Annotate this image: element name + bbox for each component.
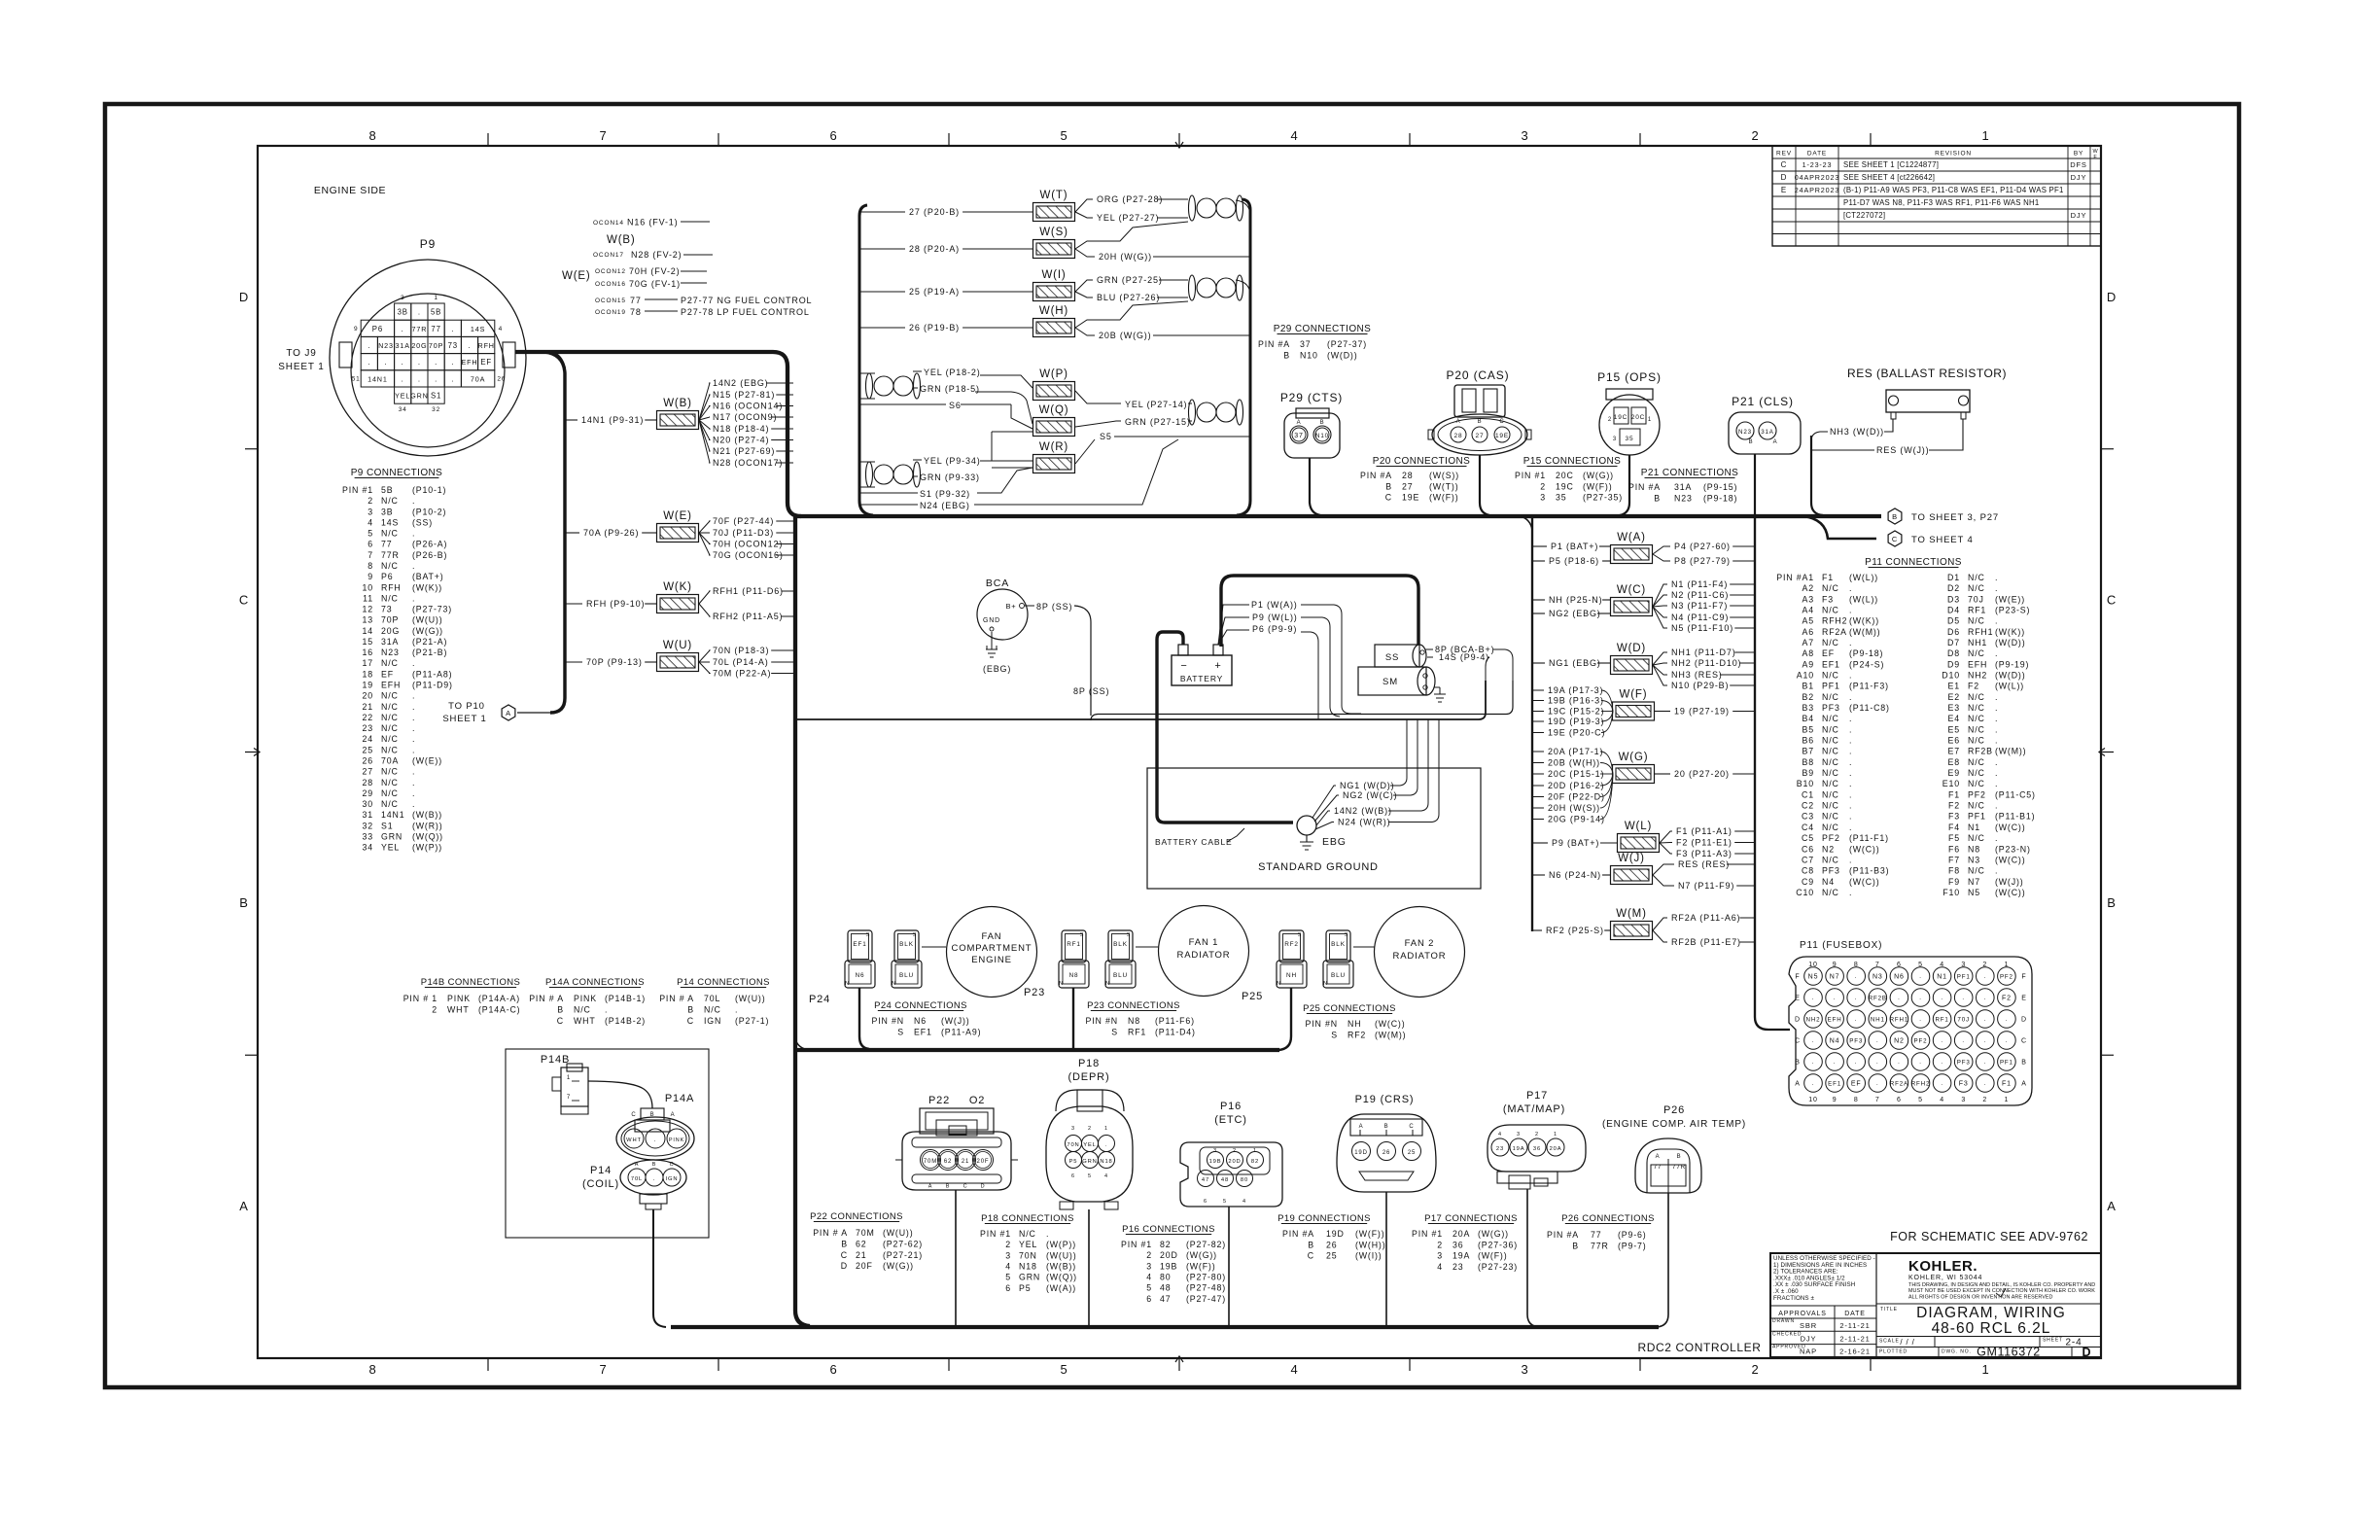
svg-text:IGN: IGN xyxy=(666,1176,679,1182)
svg-text:2: 2 xyxy=(1146,1250,1152,1260)
svg-text:(W(H)): (W(H)) xyxy=(1355,1240,1385,1249)
svg-text:N7: N7 xyxy=(1830,974,1840,981)
svg-text:P17: P17 xyxy=(1526,1090,1548,1102)
svg-text:A5: A5 xyxy=(1802,616,1814,626)
table P23 CONNECTIONS xyxy=(1086,1000,1196,1036)
resistor RES (BALLAST RESISTOR) xyxy=(1847,367,2007,419)
svg-text:TO SHEET 4: TO SHEET 4 xyxy=(1911,535,1974,545)
svg-text:PIN #1: PIN #1 xyxy=(1412,1229,1443,1239)
svg-text:SHEET 1: SHEET 1 xyxy=(442,714,486,724)
svg-text:20D (P16-2): 20D (P16-2) xyxy=(1548,781,1604,790)
svg-text:(MAT/MAP): (MAT/MAP) xyxy=(1503,1103,1565,1115)
svg-text:P18: P18 xyxy=(1078,1058,1100,1069)
splice W(G) xyxy=(1613,752,1655,784)
svg-text:.: . xyxy=(1849,768,1852,778)
svg-text:2-16-21: 2-16-21 xyxy=(1839,1347,1871,1356)
svg-text:8: 8 xyxy=(367,561,373,571)
svg-text:3: 3 xyxy=(401,295,404,301)
svg-text:15: 15 xyxy=(363,637,374,647)
svg-text:DJY: DJY xyxy=(2071,173,2087,182)
wire RES (W(J)) to resistor xyxy=(1812,419,1963,455)
svg-text:F3: F3 xyxy=(1948,812,1960,822)
svg-text:E1: E1 xyxy=(1948,682,1960,691)
svg-text:N6 (P24-N): N6 (P24-N) xyxy=(1549,870,1601,880)
svg-text:7: 7 xyxy=(1875,962,1880,968)
svg-text:D: D xyxy=(2107,290,2117,304)
table P17 CONNECTIONS xyxy=(1412,1213,1518,1272)
svg-text:P23: P23 xyxy=(1024,987,1045,998)
svg-text:4: 4 xyxy=(1437,1262,1443,1272)
wire P26 stem xyxy=(1657,1193,1668,1327)
svg-text:24: 24 xyxy=(363,734,374,744)
svg-text:3: 3 xyxy=(1613,437,1617,442)
connector P24 fan modules BLK/BLU xyxy=(892,930,922,988)
svg-text:E: E xyxy=(2021,996,2027,1002)
svg-text:OCON15: OCON15 xyxy=(595,297,626,304)
svg-text:F3: F3 xyxy=(1959,1081,1969,1088)
svg-text:SEE SHEET 4 [ct226642]: SEE SHEET 4 [ct226642] xyxy=(1843,173,1935,182)
wire branch long horizontal mid line xyxy=(795,681,1486,719)
svg-text:F1 (P11-A1): F1 (P11-A1) xyxy=(1676,826,1732,836)
svg-text:2-4: 2-4 xyxy=(2065,1338,2082,1348)
svg-text:P14A CONNECTIONS: P14A CONNECTIONS xyxy=(545,977,645,988)
border frame inner drawing area xyxy=(258,146,2101,1358)
svg-text:A6: A6 xyxy=(1802,627,1814,637)
svg-text:N5 (P11-F10): N5 (P11-F10) xyxy=(1671,623,1733,633)
wire P17 stem xyxy=(1527,1189,1539,1327)
svg-text:C1: C1 xyxy=(1802,789,1814,799)
svg-text:BLU: BLU xyxy=(899,972,914,979)
svg-text:35: 35 xyxy=(1626,436,1634,442)
svg-text:YEL: YEL xyxy=(1019,1240,1037,1249)
svg-text:77R: 77R xyxy=(1591,1242,1609,1251)
component BCA battery charging alternator xyxy=(977,577,1072,640)
svg-text:.: . xyxy=(384,358,387,367)
svg-text:.: . xyxy=(1984,1017,1987,1023)
svg-text:.: . xyxy=(435,358,437,367)
splice W(M) xyxy=(1611,908,1653,940)
table P15 CONNECTIONS xyxy=(1515,456,1623,503)
svg-text:6: 6 xyxy=(1897,1097,1902,1103)
table P19 CONNECTIONS xyxy=(1277,1213,1385,1261)
table P20 CONNECTIONS xyxy=(1360,456,1470,503)
svg-text:C: C xyxy=(670,1162,675,1168)
svg-text:N17 (OCON9): N17 (OCON9) xyxy=(713,412,777,422)
svg-text:.: . xyxy=(605,1005,608,1015)
svg-text:(W(G)): (W(G)) xyxy=(1583,471,1614,480)
svg-text:37: 37 xyxy=(1294,433,1304,439)
svg-text:PF2: PF2 xyxy=(2000,974,2013,981)
svg-text:NG2 (EBG): NG2 (EBG) xyxy=(1549,609,1601,618)
svg-text:(P24-S): (P24-S) xyxy=(1849,659,1884,669)
svg-text:B: B xyxy=(1308,1240,1314,1249)
svg-text:A: A xyxy=(1456,419,1461,425)
svg-text:6: 6 xyxy=(367,540,373,549)
svg-text:RDC2 CONTROLLER: RDC2 CONTROLLER xyxy=(1637,1341,1761,1354)
splice W(S) xyxy=(1033,227,1075,259)
svg-text:5: 5 xyxy=(1146,1283,1152,1293)
svg-text:.: . xyxy=(1995,801,1998,811)
svg-text:17: 17 xyxy=(363,658,374,668)
node B TO SHEET 3, P27 xyxy=(1888,508,1999,524)
wire 25 (P19-A) xyxy=(859,287,1032,297)
svg-text:PIN #1: PIN #1 xyxy=(980,1229,1011,1239)
svg-text:PF1: PF1 xyxy=(1957,974,1971,981)
svg-text:E: E xyxy=(1781,186,1787,194)
svg-text:W(E): W(E) xyxy=(562,270,591,282)
svg-text:3: 3 xyxy=(367,507,373,516)
svg-text:.: . xyxy=(1995,714,1998,723)
svg-text:70G (FV-1): 70G (FV-1) xyxy=(629,279,681,289)
svg-text:S5: S5 xyxy=(1100,432,1112,441)
svg-text:B1: B1 xyxy=(1802,682,1814,691)
svg-text:P1 (W(A)): P1 (W(A)) xyxy=(1251,600,1298,610)
W(B) fanout wires xyxy=(699,378,793,468)
svg-text:N/C: N/C xyxy=(1822,801,1839,811)
svg-text:.: . xyxy=(1995,779,1998,788)
svg-text:YEL (P27-14): YEL (P27-14) xyxy=(1125,400,1187,409)
svg-text:70J (P11-D3): 70J (P11-D3) xyxy=(713,528,774,538)
svg-text:20F: 20F xyxy=(856,1261,873,1271)
svg-text:3: 3 xyxy=(1521,128,1528,143)
svg-text:(W(U)): (W(U)) xyxy=(412,615,442,625)
svg-text:31A: 31A xyxy=(396,341,410,350)
svg-text:RF2B (P11-E7): RF2B (P11-E7) xyxy=(1671,937,1741,947)
svg-text:20B (W(H)): 20B (W(H)) xyxy=(1548,758,1600,768)
svg-text:P18 CONNECTIONS: P18 CONNECTIONS xyxy=(981,1213,1074,1224)
svg-text:1: 1 xyxy=(434,295,437,301)
svg-text:.: . xyxy=(1995,736,1998,746)
svg-text:S: S xyxy=(866,932,871,938)
connector P29 (CTS) xyxy=(1280,391,1343,458)
W(J) fanout wires xyxy=(1653,859,1755,891)
svg-text:70J: 70J xyxy=(1968,594,1984,604)
wire harness W-group left bus xyxy=(859,205,873,515)
wire P14 stem to trunk xyxy=(653,1209,666,1327)
svg-text:RF1: RF1 xyxy=(1968,606,1986,615)
svg-text:(P11-C5): (P11-C5) xyxy=(1995,789,2036,799)
svg-text:70F (P27-44): 70F (P27-44) xyxy=(713,516,774,526)
svg-text:(P11-A8): (P11-A8) xyxy=(412,669,452,679)
wire S5 xyxy=(1075,432,1250,464)
svg-text:OCON19: OCON19 xyxy=(595,309,626,316)
svg-text:P6: P6 xyxy=(372,325,383,333)
svg-text:BATTERY: BATTERY xyxy=(1180,674,1223,683)
revision table xyxy=(1772,146,2101,246)
svg-text:PIN #A: PIN #A xyxy=(1258,339,1290,349)
wire thick loop over battery to starter xyxy=(1221,576,1418,647)
svg-text:DJY: DJY xyxy=(2071,211,2087,220)
svg-text:N/C: N/C xyxy=(1822,855,1839,864)
svg-text:.: . xyxy=(412,713,415,722)
svg-text:N: N xyxy=(845,981,850,987)
svg-text:N/C: N/C xyxy=(381,691,399,701)
svg-text:(P11-B1): (P11-B1) xyxy=(1995,812,2035,822)
svg-text:.: . xyxy=(735,1005,738,1015)
svg-text:/ / /: / / / xyxy=(1900,1338,1914,1347)
svg-text:30: 30 xyxy=(363,799,374,809)
svg-text:.: . xyxy=(412,799,415,809)
node A TO P10 SHEET 1 xyxy=(442,701,550,724)
wires 19A-19E to W(F) xyxy=(1532,685,1613,738)
svg-text:F1: F1 xyxy=(1822,573,1834,582)
svg-text:EF: EF xyxy=(1851,1081,1862,1088)
svg-text:DIAGRAM, WIRING: DIAGRAM, WIRING xyxy=(1916,1305,2066,1321)
svg-text:THIS DRAWING, IN DESIGN AND DE: THIS DRAWING, IN DESIGN AND DETAIL, IS K… xyxy=(1908,1282,2095,1288)
splice W(Q) xyxy=(1033,404,1075,437)
svg-text:(P11-D9): (P11-D9) xyxy=(412,681,453,690)
svg-text:20D: 20D xyxy=(1160,1250,1178,1260)
svg-text:1: 1 xyxy=(1981,128,1989,143)
svg-text:RES (W(J)): RES (W(J)) xyxy=(1876,445,1930,455)
svg-text:N4 (P11-C9): N4 (P11-C9) xyxy=(1671,612,1729,622)
svg-text:PF1: PF1 xyxy=(1822,682,1840,691)
svg-text:N/C: N/C xyxy=(1968,692,1985,702)
svg-text:9: 9 xyxy=(1833,962,1837,968)
svg-text:BLU: BLU xyxy=(1331,972,1346,979)
connector P17 (MAT/MAP) xyxy=(1487,1090,1586,1189)
svg-text:B10: B10 xyxy=(1797,779,1814,788)
table P26 CONNECTIONS xyxy=(1547,1213,1655,1251)
svg-text:(DEPR): (DEPR) xyxy=(1068,1071,1110,1083)
svg-text:F3 (P11-A3): F3 (P11-A3) xyxy=(1676,849,1732,858)
svg-text:ALL RIGHTS OF DESIGN OR INVENT: ALL RIGHTS OF DESIGN OR INVENTION ARE RE… xyxy=(1908,1294,2053,1300)
svg-text:N10: N10 xyxy=(1315,433,1329,439)
svg-text:28: 28 xyxy=(1454,433,1463,439)
svg-text:PF3: PF3 xyxy=(1957,1060,1971,1067)
svg-text:PINK: PINK xyxy=(574,994,597,1003)
svg-text:2: 2 xyxy=(1535,1132,1539,1137)
connector P14B xyxy=(541,1054,588,1114)
component SM starter motor xyxy=(1358,667,1435,695)
wire harness W-group right bus xyxy=(1237,199,1250,515)
svg-text:.: . xyxy=(1919,974,1922,980)
svg-text:EBG: EBG xyxy=(1322,836,1347,848)
label BATTERY CABLE xyxy=(1155,828,1244,847)
svg-text:34: 34 xyxy=(399,406,407,413)
twisted pair YEL/GRN P9 xyxy=(859,432,1032,487)
svg-text:(W(F)): (W(F)) xyxy=(1355,1229,1385,1239)
wire S6 xyxy=(859,401,1011,410)
svg-text:PIN #N: PIN #N xyxy=(1086,1016,1118,1026)
svg-text:7: 7 xyxy=(567,1095,571,1101)
svg-text:P16: P16 xyxy=(1220,1101,1242,1112)
svg-text:31A: 31A xyxy=(1674,482,1692,492)
svg-text:N8: N8 xyxy=(1069,972,1079,979)
wire harness left bus from P9 split xyxy=(544,352,565,713)
svg-text:.: . xyxy=(1962,1038,1965,1044)
svg-text:(P27-82): (P27-82) xyxy=(1186,1240,1226,1249)
svg-text:2: 2 xyxy=(1751,1362,1759,1377)
connector P14A xyxy=(616,1093,694,1160)
svg-text:10: 10 xyxy=(1808,962,1818,968)
svg-text:.: . xyxy=(1849,747,1852,756)
svg-text:2-11-21: 2-11-21 xyxy=(1839,1334,1870,1343)
svg-text:70L (P14-A): 70L (P14-A) xyxy=(713,657,769,667)
svg-text:OCON16: OCON16 xyxy=(595,281,626,288)
connector P11 (FUSEBOX) xyxy=(1789,940,2032,1105)
splice W(D) xyxy=(1611,643,1653,675)
svg-text:20C: 20C xyxy=(1556,471,1574,480)
svg-text:.: . xyxy=(418,308,421,317)
svg-text:1: 1 xyxy=(2005,962,2010,968)
splice W(U) xyxy=(657,640,699,672)
svg-text:19C (P15-2): 19C (P15-2) xyxy=(1548,707,1604,717)
svg-text:(W(C)): (W(C)) xyxy=(1995,855,2025,864)
svg-text:.: . xyxy=(412,723,415,733)
wire harness trunk from P9 xyxy=(515,352,801,516)
svg-text:B: B xyxy=(1384,1124,1389,1130)
svg-text:N6: N6 xyxy=(1894,974,1905,981)
svg-text:20A: 20A xyxy=(1550,1146,1562,1152)
table P11 CONNECTIONS xyxy=(1776,557,2036,897)
svg-text:D5: D5 xyxy=(1947,616,1960,626)
svg-text:14N2 (EBG): 14N2 (EBG) xyxy=(713,378,769,388)
svg-text:31A: 31A xyxy=(1761,429,1774,436)
svg-text:B3: B3 xyxy=(1802,703,1814,713)
svg-text:REV: REV xyxy=(1776,151,1792,157)
svg-text:5: 5 xyxy=(1060,128,1067,143)
svg-text:.: . xyxy=(654,1137,657,1143)
wire 27 (P20-B) xyxy=(859,207,1032,217)
svg-text:B9: B9 xyxy=(1802,768,1814,778)
svg-text:28: 28 xyxy=(1402,471,1414,480)
svg-text:.: . xyxy=(1995,648,1998,658)
svg-text:.: . xyxy=(412,734,415,744)
svg-text:B: B xyxy=(1478,419,1483,425)
svg-text:C: C xyxy=(1781,160,1788,169)
svg-text:P21 (CLS): P21 (CLS) xyxy=(1732,395,1794,408)
svg-text:20A: 20A xyxy=(1452,1229,1470,1239)
svg-text:(ETC): (ETC) xyxy=(1214,1114,1247,1126)
svg-text:.: . xyxy=(1812,1081,1815,1087)
svg-text:20F: 20F xyxy=(977,1159,990,1165)
svg-text:C6: C6 xyxy=(1802,844,1814,854)
svg-text:.: . xyxy=(412,778,415,787)
wire harness W-column left bus xyxy=(1531,516,1533,931)
svg-text:20G: 20G xyxy=(381,626,400,636)
svg-text:W(M): W(M) xyxy=(1616,908,1647,920)
svg-text:.: . xyxy=(1046,1229,1049,1239)
splice W(B) xyxy=(657,398,699,430)
svg-text:(W(L)): (W(L)) xyxy=(1849,594,1878,604)
svg-text:SHEET 1: SHEET 1 xyxy=(278,362,324,372)
svg-text:COMPARTMENT: COMPARTMENT xyxy=(952,943,1032,954)
svg-text:N/C: N/C xyxy=(1822,692,1839,702)
svg-text:BCA: BCA xyxy=(986,577,1009,589)
svg-text:(P27-36): (P27-36) xyxy=(1478,1240,1518,1249)
svg-text:(W(B)): (W(B)) xyxy=(412,810,442,820)
svg-text:D1: D1 xyxy=(1947,573,1960,582)
svg-text:(P9-18): (P9-18) xyxy=(1849,648,1883,658)
svg-text:1: 1 xyxy=(2005,1097,2010,1103)
svg-text:C: C xyxy=(687,1016,694,1026)
svg-text:3: 3 xyxy=(1213,1148,1217,1154)
svg-text:P27-78 LP FUEL CONTROL: P27-78 LP FUEL CONTROL xyxy=(681,307,810,317)
svg-text:16: 16 xyxy=(363,647,374,657)
svg-text:MUST NOT BE USED EXCEPT IN CON: MUST NOT BE USED EXCEPT IN CONNECTION WI… xyxy=(1908,1288,2095,1294)
svg-text:NH (P25-N): NH (P25-N) xyxy=(1549,595,1603,605)
svg-text:N/C: N/C xyxy=(1019,1229,1036,1239)
svg-text:N18 (P18-4): N18 (P18-4) xyxy=(713,424,769,434)
svg-text:PINK: PINK xyxy=(447,994,471,1003)
svg-text:2: 2 xyxy=(432,1005,437,1015)
svg-text:N: N xyxy=(1323,981,1328,987)
svg-text:PINK: PINK xyxy=(669,1137,684,1143)
svg-text:(W(C)): (W(C)) xyxy=(1849,844,1879,854)
svg-text:.: . xyxy=(412,658,415,668)
svg-text:P29 CONNECTIONS: P29 CONNECTIONS xyxy=(1274,324,1371,334)
svg-text:BLU: BLU xyxy=(1113,972,1128,979)
svg-text:2: 2 xyxy=(1437,1240,1443,1249)
svg-text:STANDARD GROUND: STANDARD GROUND xyxy=(1258,861,1379,873)
svg-text:(W(D)): (W(D)) xyxy=(1995,671,2025,681)
svg-text:(B-1) P11-A9 WAS PF3, P11-C8 W: (B-1) P11-A9 WAS PF3, P11-C8 WAS EF1, P1… xyxy=(1843,186,2064,194)
svg-text:F2: F2 xyxy=(1948,801,1960,811)
wire harness bottom trunk xyxy=(671,1325,1659,1329)
svg-text:N2: N2 xyxy=(1894,1038,1905,1045)
svg-text:70N: 70N xyxy=(1019,1250,1037,1260)
svg-text:34: 34 xyxy=(363,843,374,853)
wire GRN (P27-25) twisted pair xyxy=(1075,275,1188,302)
svg-text:.: . xyxy=(1876,1060,1879,1066)
svg-text:C: C xyxy=(631,1112,636,1118)
svg-text:(P27-21): (P27-21) xyxy=(883,1250,923,1260)
svg-text:F5: F5 xyxy=(1948,833,1960,843)
svg-text:.: . xyxy=(1984,1081,1987,1087)
svg-text:N1: N1 xyxy=(1968,822,1980,832)
svg-text:.: . xyxy=(412,529,415,539)
svg-text:EF: EF xyxy=(381,669,394,679)
svg-text:DRAWN: DRAWN xyxy=(1772,1318,1795,1324)
svg-text:.: . xyxy=(1849,812,1852,822)
svg-text:SM: SM xyxy=(1382,677,1398,687)
svg-text:N2: N2 xyxy=(1822,844,1835,854)
svg-text:.: . xyxy=(1812,1038,1815,1044)
svg-text:N15 (P27-81): N15 (P27-81) xyxy=(713,390,775,400)
svg-text:F10: F10 xyxy=(1942,888,1960,897)
svg-text:N3 (P11-F7): N3 (P11-F7) xyxy=(1671,601,1728,611)
svg-text:C9: C9 xyxy=(1802,877,1814,887)
svg-text:.: . xyxy=(1984,1038,1987,1044)
svg-text:.: . xyxy=(1941,996,1943,1001)
svg-text:77R: 77R xyxy=(412,325,428,333)
svg-text:(W(C)): (W(C)) xyxy=(1849,877,1879,887)
svg-text:.: . xyxy=(1834,996,1837,1001)
svg-text:NH3 (W(D)): NH3 (W(D)) xyxy=(1830,427,1884,437)
svg-text:B: B xyxy=(1749,439,1754,445)
svg-text:EFH: EFH xyxy=(381,681,401,690)
svg-text:8P (SS): 8P (SS) xyxy=(1073,686,1109,696)
svg-text:.: . xyxy=(1995,703,1998,713)
svg-text:.: . xyxy=(1855,1017,1858,1023)
svg-text:14N2 (W(B)): 14N2 (W(B)) xyxy=(1334,806,1392,816)
svg-text:APPROVALS: APPROVALS xyxy=(1778,1311,1827,1317)
svg-text:48: 48 xyxy=(1221,1177,1229,1183)
svg-text:C: C xyxy=(2021,1038,2027,1045)
svg-text:D: D xyxy=(841,1261,848,1271)
svg-text:C: C xyxy=(1409,1124,1414,1130)
svg-text:.: . xyxy=(1995,768,1998,778)
svg-text:N/C: N/C xyxy=(381,713,399,722)
svg-text:P26 CONNECTIONS: P26 CONNECTIONS xyxy=(1561,1213,1655,1224)
svg-text:F1: F1 xyxy=(2002,1081,2012,1088)
svg-text:A: A xyxy=(506,709,511,717)
svg-text:P1 (BAT+): P1 (BAT+) xyxy=(1551,542,1598,551)
svg-text:4: 4 xyxy=(1940,1097,1944,1103)
svg-text:REVISION: REVISION xyxy=(1935,151,1972,157)
svg-text:DFS: DFS xyxy=(2070,160,2087,169)
